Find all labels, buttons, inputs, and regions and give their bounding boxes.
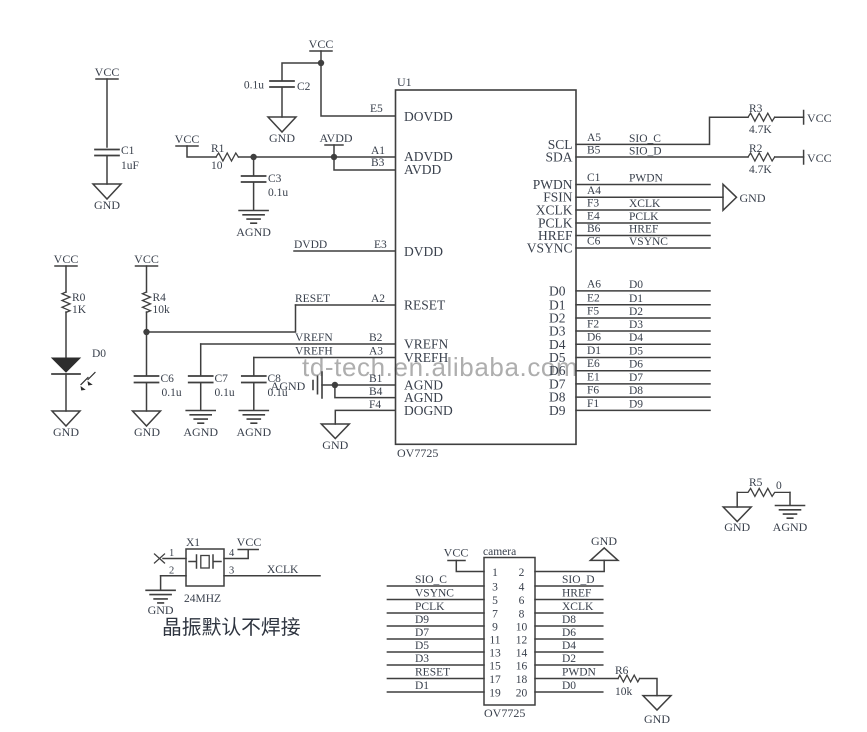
power VCC (crystal)	[237, 535, 262, 550]
pin 3 wire XCLK	[224, 575, 320, 577]
svg-text:16: 16	[516, 661, 528, 673]
svg-text:4.7K: 4.7K	[749, 164, 772, 176]
wire D0 (pin20)	[535, 691, 603, 693]
ground GND (C6)	[133, 411, 161, 439]
power VCC (R2)	[804, 151, 832, 166]
svg-text:晶振默认不焊接: 晶振默认不焊接	[162, 617, 301, 639]
wire DOGND F4	[335, 410, 395, 424]
resistor R3 4.7K	[748, 103, 775, 136]
IC U1 left pin names	[404, 109, 453, 418]
svg-text:PCLK: PCLK	[415, 601, 445, 613]
net RESET wire to A2	[296, 304, 396, 306]
svg-text:A3: A3	[369, 346, 383, 358]
node junction (AVDD)	[331, 154, 337, 160]
svg-text:R1: R1	[211, 143, 225, 155]
wire D6 (pin12)	[535, 638, 603, 640]
ground AGND (B1/B4 node, rotated)	[271, 372, 322, 398]
wire D3	[576, 330, 710, 332]
resistor R0 1K	[62, 292, 87, 316]
ground GND (R5 left)	[723, 507, 751, 534]
capacitor C1	[95, 145, 139, 172]
svg-text:RESET: RESET	[295, 293, 330, 305]
wire	[106, 79, 108, 147]
svg-text:GND: GND	[724, 520, 750, 534]
svg-text:D9: D9	[549, 403, 566, 418]
wire HREF (pin6)	[535, 599, 603, 601]
svg-text:19: 19	[489, 688, 501, 700]
crystal X1 24MHZ	[184, 537, 224, 605]
svg-text:GND: GND	[53, 425, 79, 439]
svg-text:VSYNC: VSYNC	[527, 241, 573, 256]
svg-text:F3: F3	[587, 198, 599, 210]
wire pin1	[456, 561, 484, 572]
svg-text:9: 9	[492, 622, 498, 634]
svg-text:XCLK: XCLK	[629, 198, 661, 210]
wire SIO_D (pin4)	[535, 585, 603, 587]
svg-text:7: 7	[492, 609, 498, 621]
wire SIO_C (pin3)	[387, 585, 484, 587]
svg-text:B1: B1	[369, 373, 383, 385]
wire D8 (pin10)	[535, 625, 603, 627]
resistor R6 10k	[615, 665, 640, 698]
svg-text:VCC: VCC	[175, 132, 200, 146]
svg-text:SIO_D: SIO_D	[629, 146, 662, 158]
wire	[146, 312, 148, 375]
svg-text:AGND: AGND	[773, 520, 808, 534]
svg-text:VSYNC: VSYNC	[629, 236, 668, 248]
ground AGND (C8)	[236, 411, 271, 440]
power VCC (R1)	[175, 132, 200, 146]
svg-text:OV7725: OV7725	[397, 446, 438, 460]
svg-text:R2: R2	[749, 143, 763, 155]
resistor R4 10k	[143, 292, 171, 316]
svg-text:DVDD: DVDD	[404, 244, 443, 259]
svg-text:R5: R5	[749, 477, 763, 489]
svg-text:U1: U1	[397, 75, 412, 89]
capacitor C7	[189, 373, 235, 399]
svg-text:R0: R0	[72, 292, 86, 304]
svg-text:2: 2	[169, 566, 174, 577]
svg-text:C1: C1	[587, 172, 601, 184]
wire to A1	[239, 156, 396, 158]
wire SDA/SIO_D	[576, 156, 748, 158]
wire D1	[576, 304, 710, 306]
wire D0	[576, 290, 710, 292]
power VCC (R3)	[804, 111, 832, 126]
wire	[106, 156, 108, 184]
wire	[775, 156, 804, 158]
svg-text:VCC: VCC	[807, 151, 832, 165]
wire SCL/SIO_C	[576, 117, 748, 144]
svg-text:GND: GND	[134, 425, 160, 439]
svg-text:F6: F6	[587, 385, 599, 397]
svg-text:D2: D2	[629, 306, 643, 318]
svg-text:PWDN: PWDN	[562, 667, 597, 679]
svg-text:6: 6	[519, 595, 525, 607]
wire to B1	[335, 384, 395, 386]
wire	[282, 63, 321, 80]
wire XCLK (pin8)	[535, 612, 603, 614]
ground AGND (C3)	[236, 211, 271, 240]
power VCC (C1 chain)	[95, 65, 120, 79]
wire	[200, 344, 202, 375]
wire	[775, 116, 804, 118]
wire D9	[576, 409, 710, 411]
pin 4 wire to VCC	[224, 550, 248, 559]
svg-text:DVDD: DVDD	[294, 239, 327, 251]
svg-text:24MHZ: 24MHZ	[184, 593, 221, 605]
svg-text:18: 18	[516, 674, 528, 686]
svg-text:17: 17	[489, 674, 501, 686]
ground GND (connector pin2, up triangle)	[590, 534, 618, 560]
wire XCLK	[576, 209, 710, 211]
wire D7 (pin11)	[387, 638, 484, 640]
svg-text:12: 12	[516, 635, 528, 647]
svg-text:C2: C2	[297, 81, 311, 93]
svg-text:20: 20	[516, 688, 528, 700]
wire AGND to node	[322, 384, 335, 386]
svg-text:A5: A5	[587, 132, 601, 144]
svg-text:4: 4	[519, 582, 525, 594]
svg-text:AGND: AGND	[236, 425, 271, 439]
svg-text:SIO_C: SIO_C	[629, 133, 661, 145]
svg-text:5: 5	[492, 595, 498, 607]
svg-text:AVDD: AVDD	[404, 162, 442, 177]
svg-text:B3: B3	[371, 157, 385, 169]
wire PCLK	[576, 222, 710, 224]
ground GND (C1)	[93, 184, 121, 212]
svg-text:10k: 10k	[153, 304, 171, 316]
svg-text:F1: F1	[587, 398, 599, 410]
svg-text:C6: C6	[161, 373, 175, 385]
svg-text:VCC: VCC	[134, 252, 159, 266]
node junction (VCC/C2/E5)	[318, 60, 324, 66]
connector left wires	[387, 574, 484, 692]
svg-text:B2: B2	[369, 332, 383, 344]
svg-text:D7: D7	[415, 627, 429, 639]
svg-text:D3: D3	[415, 653, 429, 665]
IC U1 right pin names	[527, 137, 573, 418]
svg-text:10: 10	[211, 160, 223, 172]
svg-text:D4: D4	[562, 640, 576, 652]
svg-text:VREFN: VREFN	[295, 332, 333, 344]
svg-text:GND: GND	[148, 603, 174, 617]
svg-text:E4: E4	[587, 211, 600, 223]
svg-text:4.7K: 4.7K	[749, 124, 772, 136]
svg-text:HREF: HREF	[562, 588, 591, 600]
svg-text:VCC: VCC	[54, 252, 79, 266]
svg-text:11: 11	[489, 635, 500, 647]
connector J1 camera body	[483, 546, 535, 720]
svg-text:PCLK: PCLK	[629, 211, 659, 223]
svg-text:C6: C6	[587, 236, 601, 248]
svg-text:camera: camera	[483, 546, 516, 558]
wire FSIN	[576, 196, 723, 198]
svg-text:HREF: HREF	[629, 224, 658, 236]
svg-text:VCC: VCC	[309, 37, 334, 51]
ground GND (R6)	[643, 696, 671, 726]
wire D1 (pin19)	[387, 691, 484, 693]
net DVDD wire to E3	[294, 250, 395, 252]
wire PWDN	[576, 184, 710, 186]
svg-text:D0: D0	[92, 348, 106, 360]
svg-text:0: 0	[776, 480, 782, 492]
svg-text:D5: D5	[629, 346, 643, 358]
ground GND (LED)	[52, 411, 80, 439]
ground GND (C2)	[268, 117, 296, 145]
svg-text:A6: A6	[587, 278, 601, 290]
wire D4	[576, 343, 710, 345]
ground AGND (R5 right)	[773, 506, 808, 535]
svg-text:PWDN: PWDN	[629, 173, 664, 185]
svg-text:X1: X1	[186, 537, 200, 549]
net VREFH wire to A3	[254, 357, 395, 359]
svg-text:D6: D6	[629, 359, 643, 371]
wire	[640, 679, 657, 696]
svg-text:GND: GND	[94, 198, 120, 212]
svg-text:D9: D9	[629, 398, 643, 410]
svg-text:AGND: AGND	[183, 425, 218, 439]
wire	[253, 358, 255, 376]
wire D2 (pin16)	[535, 664, 603, 666]
svg-text:E5: E5	[370, 103, 383, 115]
svg-text:OV7725: OV7725	[484, 706, 525, 720]
wire	[789, 492, 791, 505]
capacitor C2	[244, 80, 311, 94]
svg-text:E3: E3	[374, 239, 387, 251]
power VCC (LED chain)	[54, 252, 79, 266]
wire to pin E5	[321, 63, 395, 116]
svg-text:D6: D6	[562, 627, 576, 639]
wire D5	[576, 357, 710, 359]
node junction (C3 top)	[250, 154, 256, 160]
wire D5 (pin13)	[387, 651, 484, 653]
LED D0	[52, 348, 106, 391]
svg-text:0.1u: 0.1u	[268, 187, 288, 199]
svg-text:1uF: 1uF	[121, 160, 139, 172]
IC U1 OV7725 body	[396, 75, 577, 460]
svg-text:GND: GND	[644, 712, 670, 726]
wire D6	[576, 370, 710, 372]
svg-text:B6: B6	[587, 223, 601, 235]
wire	[320, 51, 322, 63]
wire PWDN (pin18) to R6	[535, 678, 618, 680]
svg-text:D0: D0	[562, 680, 576, 692]
svg-text:14: 14	[516, 648, 528, 660]
svg-text:1: 1	[169, 548, 174, 559]
svg-text:SDA: SDA	[545, 150, 572, 165]
svg-text:3: 3	[229, 566, 234, 577]
svg-text:VREFH: VREFH	[295, 346, 333, 358]
svg-text:D0: D0	[549, 284, 566, 299]
capacitor C8	[242, 373, 288, 399]
svg-text:D9: D9	[415, 614, 429, 626]
power AVDD	[319, 131, 352, 157]
wire	[253, 183, 255, 210]
svg-text:2: 2	[519, 567, 525, 579]
svg-text:GND: GND	[591, 534, 617, 548]
wire	[736, 492, 738, 507]
svg-text:A2: A2	[371, 293, 385, 305]
wire	[65, 374, 67, 411]
svg-text:E1: E1	[587, 371, 600, 383]
svg-text:XCLK: XCLK	[562, 601, 594, 613]
wire RESET (pin17)	[387, 678, 484, 680]
wire VSYNC (pin5)	[387, 599, 484, 601]
svg-text:VREFH: VREFH	[404, 350, 449, 365]
wire D3 (pin15)	[387, 664, 484, 666]
ground GND (FSIN, right arrow)	[723, 184, 766, 210]
svg-text:E2: E2	[587, 292, 600, 304]
pin 1 wire with X (no connect)	[163, 558, 186, 560]
svg-text:15: 15	[489, 661, 501, 673]
resistor R1 10	[211, 143, 238, 172]
svg-text:A1: A1	[371, 145, 385, 157]
resistor R5 0	[737, 477, 790, 496]
svg-text:F4: F4	[369, 399, 381, 411]
power VCC (R4 chain)	[134, 252, 159, 266]
svg-text:GND: GND	[740, 191, 766, 205]
svg-text:DOGND: DOGND	[404, 403, 453, 418]
svg-text:0.1u: 0.1u	[215, 387, 235, 399]
svg-text:VSYNC: VSYNC	[415, 588, 454, 600]
ground AGND (C7)	[183, 411, 218, 440]
node junction (B1/B4)	[332, 382, 338, 388]
svg-text:10k: 10k	[615, 686, 633, 698]
svg-text:AVDD: AVDD	[319, 131, 352, 145]
svg-text:0.1u: 0.1u	[162, 387, 182, 399]
wire	[253, 383, 255, 410]
svg-text:0.1u: 0.1u	[244, 80, 264, 92]
node junction (RESET/R4/C6)	[143, 329, 149, 335]
wire	[281, 88, 283, 117]
svg-text:D8: D8	[562, 614, 576, 626]
svg-text:8: 8	[519, 609, 525, 621]
svg-text:SIO_C: SIO_C	[415, 574, 447, 586]
wire	[187, 146, 216, 157]
svg-text:AGND: AGND	[271, 379, 306, 393]
connector pin numbers	[489, 567, 527, 700]
wire	[146, 266, 148, 292]
svg-text:1: 1	[492, 567, 498, 579]
ground GND (crystal)	[146, 590, 175, 617]
svg-text:D6: D6	[587, 332, 601, 344]
capacitor C3	[242, 173, 289, 199]
ground GND (DOGND)	[321, 424, 349, 452]
svg-text:D0: D0	[629, 279, 643, 291]
svg-text:D1: D1	[587, 345, 601, 357]
svg-text:C1: C1	[121, 145, 135, 157]
wire HREF	[576, 235, 710, 237]
svg-text:VCC: VCC	[807, 111, 832, 125]
svg-text:A4: A4	[587, 185, 601, 197]
svg-text:VCC: VCC	[444, 546, 469, 560]
resistor R2 4.7K	[748, 143, 775, 176]
svg-text:VCC: VCC	[237, 535, 262, 549]
svg-text:GND: GND	[322, 438, 348, 452]
svg-text:D1: D1	[629, 293, 643, 305]
svg-text:C3: C3	[268, 173, 282, 185]
connector right wires	[535, 574, 618, 692]
svg-text:13: 13	[489, 648, 501, 660]
svg-text:4: 4	[229, 548, 235, 559]
wire to B3	[334, 157, 395, 170]
svg-text:RESET: RESET	[415, 667, 450, 679]
svg-text:D3: D3	[629, 319, 643, 331]
svg-text:D5: D5	[415, 640, 429, 652]
wire	[253, 157, 255, 175]
wire D7	[576, 383, 710, 385]
svg-text:10: 10	[516, 622, 528, 634]
svg-text:D8: D8	[629, 385, 643, 397]
svg-text:GND: GND	[269, 131, 295, 145]
wire	[200, 383, 202, 410]
svg-text:R4: R4	[153, 292, 167, 304]
wire D2	[576, 317, 710, 319]
wire PCLK (pin7)	[387, 612, 484, 614]
wire D4 (pin14)	[535, 651, 603, 653]
wire to B4	[335, 385, 395, 398]
svg-text:B5: B5	[587, 145, 601, 157]
wire	[160, 576, 162, 590]
wire VSYNC	[576, 247, 710, 249]
wire RESET to R4 node	[147, 305, 296, 332]
svg-text:AGND: AGND	[236, 225, 271, 239]
svg-text:D4: D4	[629, 332, 643, 344]
wire D8	[576, 396, 710, 398]
svg-text:F2: F2	[587, 319, 599, 331]
power VCC (connector pin1)	[444, 546, 469, 561]
wire pin2 to GND	[535, 560, 604, 571]
svg-text:VCC: VCC	[95, 65, 120, 79]
wire	[146, 383, 148, 411]
svg-text:1K: 1K	[72, 304, 87, 316]
svg-text:DOVDD: DOVDD	[404, 109, 453, 124]
svg-text:D1: D1	[415, 680, 429, 692]
wire	[65, 312, 67, 358]
data bus D0-D9 wires and labels	[576, 278, 710, 410]
svg-text:3: 3	[492, 582, 498, 594]
svg-text:E6: E6	[587, 358, 600, 370]
svg-text:XCLK: XCLK	[267, 564, 299, 576]
svg-text:D2: D2	[562, 653, 576, 665]
net VREFN wire to B2	[201, 343, 395, 345]
wire	[65, 266, 67, 292]
svg-text:D7: D7	[629, 372, 643, 384]
svg-text:SIO_D: SIO_D	[562, 574, 595, 586]
svg-text:R3: R3	[749, 103, 763, 115]
power VCC (C2 node)	[309, 37, 334, 51]
svg-text:F5: F5	[587, 306, 599, 318]
svg-text:B4: B4	[369, 386, 383, 398]
capacitor C6	[135, 373, 182, 399]
svg-text:C7: C7	[215, 373, 229, 385]
pin 2 wire	[161, 575, 186, 577]
wire D9 (pin9)	[387, 625, 484, 627]
svg-text:RESET: RESET	[404, 298, 446, 313]
